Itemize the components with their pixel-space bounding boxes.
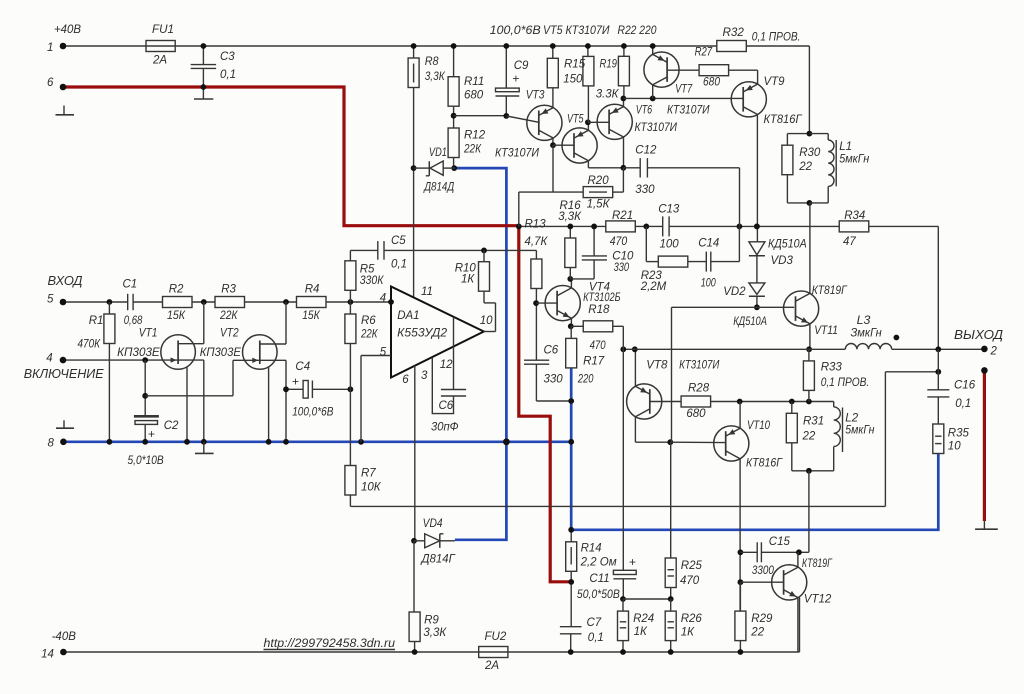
svg-text:VT6: VT6 xyxy=(636,105,653,117)
svg-text:R22 220: R22 220 xyxy=(618,25,658,37)
svg-text:47: 47 xyxy=(843,236,856,248)
svg-text:C5: C5 xyxy=(391,235,406,247)
svg-text:6: 6 xyxy=(47,77,54,89)
svg-text:С6: С6 xyxy=(544,344,559,356)
svg-text:5мкГн: 5мкГн xyxy=(839,154,870,166)
svg-text:R25: R25 xyxy=(681,560,703,572)
svg-text:Д814Д: Д814Д xyxy=(423,182,455,194)
svg-text:R3: R3 xyxy=(221,284,236,296)
svg-text:0,1 ПРОВ.: 0,1 ПРОВ. xyxy=(752,32,801,44)
svg-text:C10: C10 xyxy=(612,250,634,262)
svg-text:C1: C1 xyxy=(123,279,138,291)
svg-text:C13: C13 xyxy=(658,204,680,216)
svg-text:R5: R5 xyxy=(360,264,375,276)
svg-text:R1: R1 xyxy=(89,315,104,327)
svg-text:330: 330 xyxy=(544,374,564,386)
svg-text:VT2: VT2 xyxy=(220,328,239,340)
svg-text:680: 680 xyxy=(686,408,706,420)
svg-text:К553УД2: К553УД2 xyxy=(397,328,448,340)
svg-text:R30: R30 xyxy=(799,147,821,159)
svg-text:1,5К: 1,5К xyxy=(587,199,611,211)
svg-text:2А: 2А xyxy=(484,660,499,672)
svg-text:680: 680 xyxy=(703,76,721,88)
svg-text:15К: 15К xyxy=(302,310,321,322)
svg-text:680: 680 xyxy=(464,90,484,102)
svg-text:4: 4 xyxy=(46,353,52,365)
svg-text:C12: C12 xyxy=(635,145,657,157)
svg-text:0,1: 0,1 xyxy=(391,259,407,271)
svg-text:ВЫХОД: ВЫХОД xyxy=(954,327,1003,342)
svg-text:3300: 3300 xyxy=(752,565,775,577)
svg-text:2,2 Ом: 2,2 Ом xyxy=(580,557,617,569)
svg-text:470: 470 xyxy=(590,340,607,352)
svg-text:22К: 22К xyxy=(219,310,238,322)
svg-text:КТ819Г: КТ819Г xyxy=(812,285,848,297)
svg-text:100: 100 xyxy=(660,239,680,251)
svg-text:0,1: 0,1 xyxy=(955,398,971,410)
svg-text:R11: R11 xyxy=(464,76,484,88)
svg-text:R13: R13 xyxy=(525,219,547,231)
svg-text:VD2: VD2 xyxy=(723,286,746,298)
svg-text:R15: R15 xyxy=(564,59,586,71)
svg-text:VD3: VD3 xyxy=(771,255,794,267)
svg-text:R35: R35 xyxy=(948,427,970,439)
svg-text:0,1: 0,1 xyxy=(588,632,604,644)
svg-text:+40В: +40В xyxy=(54,24,81,36)
svg-text:VT3: VT3 xyxy=(526,90,545,102)
svg-text:КП303Е: КП303Е xyxy=(200,347,242,359)
svg-text:22: 22 xyxy=(798,161,812,173)
svg-text:R16: R16 xyxy=(560,200,582,212)
svg-text:ЗмкГн: ЗмкГн xyxy=(851,328,883,340)
svg-text:C16: C16 xyxy=(954,379,976,391)
svg-text:http://299792458.3dn.ru: http://299792458.3dn.ru xyxy=(264,636,396,650)
svg-text:VT5: VT5 xyxy=(567,114,584,126)
svg-text:4,7К: 4,7К xyxy=(525,236,549,248)
svg-text:1: 1 xyxy=(47,42,53,54)
svg-text:R20: R20 xyxy=(588,175,610,187)
svg-text:C2: C2 xyxy=(164,420,179,432)
svg-text:VT1: VT1 xyxy=(139,328,158,340)
svg-text:R23: R23 xyxy=(641,270,663,282)
svg-text:КД510А: КД510А xyxy=(768,239,807,251)
svg-text:100,0*6В: 100,0*6В xyxy=(292,407,333,419)
svg-text:R12: R12 xyxy=(464,130,486,142)
svg-text:R28: R28 xyxy=(688,383,710,395)
svg-text:R21: R21 xyxy=(612,210,633,222)
svg-text:0,1: 0,1 xyxy=(220,69,236,81)
svg-text:150: 150 xyxy=(563,74,583,86)
svg-text:11: 11 xyxy=(421,286,433,298)
svg-text:50,0*50В: 50,0*50В xyxy=(577,589,620,601)
svg-text:FU2: FU2 xyxy=(485,631,507,643)
svg-text:10: 10 xyxy=(480,315,493,327)
svg-text:VT7: VT7 xyxy=(675,84,692,96)
svg-text:VT10: VT10 xyxy=(747,420,770,432)
svg-text:22К: 22К xyxy=(360,329,378,341)
svg-text:R29: R29 xyxy=(751,613,773,625)
svg-text:VD1: VD1 xyxy=(429,147,447,159)
svg-text:12: 12 xyxy=(440,359,453,371)
svg-text:VT5 КТ3107И: VT5 КТ3107И xyxy=(543,25,610,37)
svg-text:470: 470 xyxy=(680,575,700,587)
svg-text:2,2М: 2,2М xyxy=(640,281,667,293)
svg-text:КТ816Г: КТ816Г xyxy=(746,458,783,470)
svg-text:DA1: DA1 xyxy=(397,310,419,322)
svg-text:L3: L3 xyxy=(857,315,871,327)
svg-text:VT12: VT12 xyxy=(804,594,832,606)
svg-text:C4: C4 xyxy=(295,361,310,373)
svg-text:3: 3 xyxy=(421,370,428,382)
svg-text:Д814Г: Д814Г xyxy=(420,553,456,565)
svg-text:R14: R14 xyxy=(581,543,602,555)
svg-text:22: 22 xyxy=(750,627,764,639)
svg-text:0,1 ПРОВ.: 0,1 ПРОВ. xyxy=(821,377,870,389)
svg-text:470: 470 xyxy=(610,236,628,248)
svg-text:4: 4 xyxy=(380,293,386,305)
svg-text:1К: 1К xyxy=(681,627,695,639)
svg-text:VD4: VD4 xyxy=(423,518,443,530)
svg-text:VT8: VT8 xyxy=(646,359,668,371)
svg-text:R32: R32 xyxy=(723,27,745,39)
svg-text:R2: R2 xyxy=(169,284,184,296)
svg-text:ВХОД: ВХОД xyxy=(48,273,83,288)
svg-text:R4: R4 xyxy=(305,284,320,296)
svg-text:C11: C11 xyxy=(589,573,609,585)
svg-text:100: 100 xyxy=(701,278,716,290)
svg-text:R33: R33 xyxy=(821,361,843,373)
svg-text:5: 5 xyxy=(47,294,54,306)
svg-text:8: 8 xyxy=(48,438,55,450)
svg-text:6: 6 xyxy=(402,374,409,386)
svg-text:КТ3107И: КТ3107И xyxy=(679,359,720,371)
svg-text:R6: R6 xyxy=(361,315,376,327)
svg-text:КТ819Г: КТ819Г xyxy=(802,558,833,570)
svg-text:+: + xyxy=(292,374,299,388)
svg-text:C9: C9 xyxy=(514,60,529,72)
svg-text:22К: 22К xyxy=(463,144,482,156)
svg-text:КТ3107И: КТ3107И xyxy=(495,148,540,160)
svg-text:14: 14 xyxy=(41,648,54,660)
svg-text:100,0*6В: 100,0*6В xyxy=(490,25,541,37)
svg-text:1К: 1К xyxy=(461,274,475,286)
svg-text:R7: R7 xyxy=(361,468,376,480)
svg-text:330: 330 xyxy=(614,262,630,274)
svg-text:VT9: VT9 xyxy=(764,76,786,88)
svg-text:3,3К: 3,3К xyxy=(425,71,446,83)
svg-text:C14: C14 xyxy=(698,238,719,250)
svg-text:5,0*10В: 5,0*10В xyxy=(128,455,164,467)
svg-text:-40В: -40В xyxy=(52,631,77,643)
svg-text:2А: 2А xyxy=(152,55,167,67)
svg-text:470К: 470К xyxy=(78,339,102,351)
svg-text:C15: C15 xyxy=(769,536,791,548)
svg-text:R18: R18 xyxy=(588,304,610,316)
svg-text:30пФ: 30пФ xyxy=(431,422,459,434)
svg-text:5: 5 xyxy=(380,346,387,358)
svg-text:КТ816Г: КТ816Г xyxy=(764,114,803,126)
svg-text:22: 22 xyxy=(802,431,816,443)
svg-text:R31: R31 xyxy=(803,415,824,427)
svg-text:VT11: VT11 xyxy=(814,325,838,337)
svg-text:1К: 1К xyxy=(634,626,648,638)
svg-text:5мкГн: 5мкГн xyxy=(845,424,875,436)
svg-text:R27: R27 xyxy=(695,47,713,59)
svg-text:R10: R10 xyxy=(455,263,477,275)
svg-text:FU1: FU1 xyxy=(152,24,174,36)
svg-text:L1: L1 xyxy=(839,141,852,153)
svg-text:+: + xyxy=(629,555,636,569)
svg-text:ВКЛЮЧЕНИЕ: ВКЛЮЧЕНИЕ xyxy=(24,366,104,381)
svg-text:0,68: 0,68 xyxy=(124,315,143,327)
svg-text:R19: R19 xyxy=(600,59,618,71)
svg-text:R26: R26 xyxy=(681,613,703,625)
svg-text:3.3К: 3.3К xyxy=(596,89,620,101)
svg-text:R24: R24 xyxy=(633,613,654,625)
svg-text:КТ3102Б: КТ3102Б xyxy=(583,292,621,304)
svg-text:3,3К: 3,3К xyxy=(558,211,582,223)
svg-text:КТ3107И: КТ3107И xyxy=(635,122,678,134)
svg-text:C3: C3 xyxy=(220,51,235,63)
svg-text:R34: R34 xyxy=(844,210,865,222)
svg-text:C6: C6 xyxy=(439,400,454,412)
svg-text:R17: R17 xyxy=(583,355,605,367)
svg-text:R9: R9 xyxy=(424,615,439,627)
svg-text:+: + xyxy=(148,427,155,441)
svg-text:3,3К: 3,3К xyxy=(423,627,447,639)
svg-text:C7: C7 xyxy=(587,617,602,629)
svg-text:330: 330 xyxy=(635,184,655,196)
svg-text:КП303Е: КП303Е xyxy=(117,347,160,359)
svg-text:10: 10 xyxy=(948,441,961,453)
svg-text:10К: 10К xyxy=(361,482,382,494)
svg-text:КТ3107И: КТ3107И xyxy=(667,105,710,117)
svg-text:330К: 330К xyxy=(360,275,385,287)
svg-text:220: 220 xyxy=(577,374,594,386)
svg-text:КД510А: КД510А xyxy=(733,316,767,328)
svg-text:L2: L2 xyxy=(845,412,858,424)
svg-text:R8: R8 xyxy=(425,56,439,68)
svg-text:15К: 15К xyxy=(167,310,186,322)
svg-text:+: + xyxy=(512,72,519,86)
svg-text:2: 2 xyxy=(990,345,998,357)
